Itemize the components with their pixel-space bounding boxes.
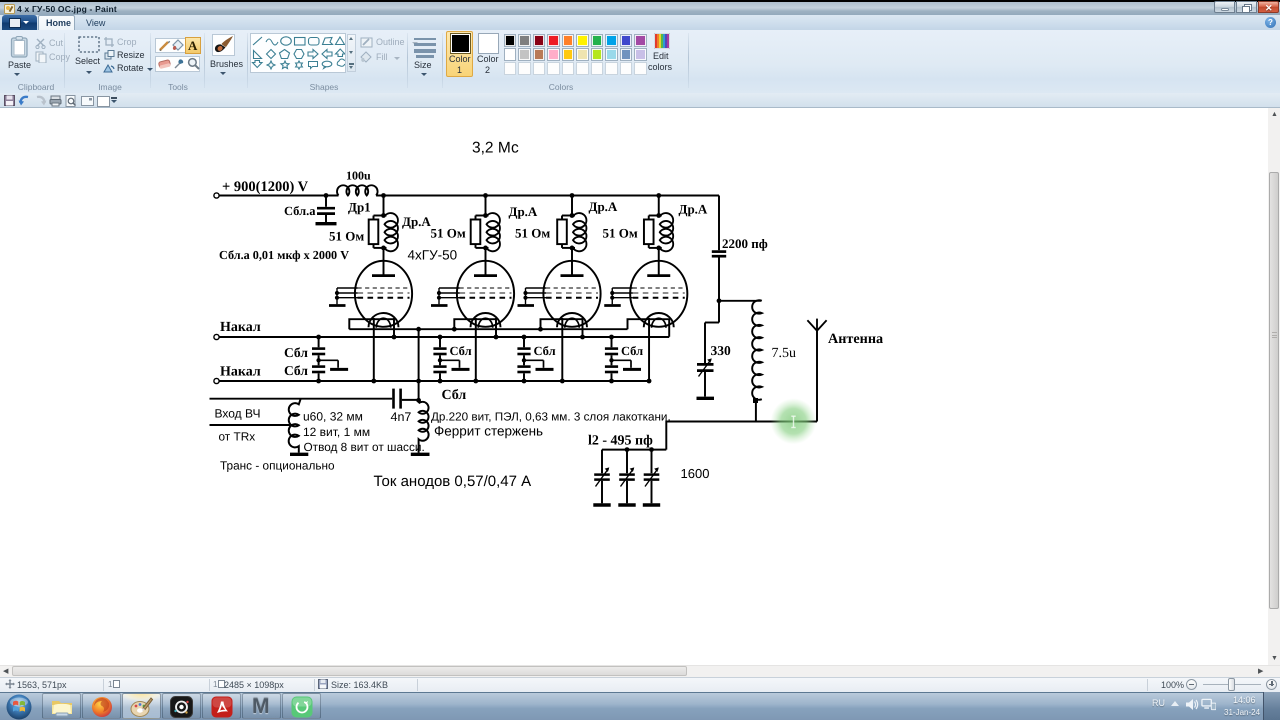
svg-text:Ток анодов 0,57/0,47 А: Ток анодов 0,57/0,47 А xyxy=(374,473,532,490)
svg-text:Др.220 вит, ПЭЛ, 0,63 мм. 3 сл: Др.220 вит, ПЭЛ, 0,63 мм. 3 слоя лакотка… xyxy=(431,411,671,424)
Brushes group xyxy=(212,34,235,56)
svg-text:+ 900(1200) V: + 900(1200) V xyxy=(222,179,309,195)
eraser icon xyxy=(158,58,171,70)
inductor Др.220 ferrite choke xyxy=(419,402,429,453)
fill icon xyxy=(172,39,185,52)
wire cathode bus H2 xyxy=(349,328,627,330)
svg-text:Др.А: Др.А xyxy=(679,202,708,217)
wire tank coil bottom xyxy=(666,399,756,449)
antenna xyxy=(807,319,826,422)
wire supply to choke stage 2 xyxy=(485,196,487,216)
svg-text:Сбл: Сбл xyxy=(621,344,643,358)
wire tube 1 filament right leg xyxy=(393,318,395,337)
svg-text:Др1: Др1 xyxy=(348,200,371,215)
svg-text:7.5u: 7.5u xyxy=(772,346,797,361)
capacitor Сбл cathode pair 1 xyxy=(433,335,469,384)
transformer input coil xyxy=(289,399,301,453)
resistor 51 Ом R2 with choke Др.А L2 xyxy=(471,213,500,251)
svg-text:51 Ом: 51 Ом xyxy=(329,229,364,244)
wire tube 3 filament left leg xyxy=(561,318,563,381)
tube ГУ-50 V4 xyxy=(604,248,687,328)
acrobat icon xyxy=(211,696,233,718)
start orb xyxy=(5,694,33,720)
tray xyxy=(1152,698,1165,708)
node Накал terminal 2 xyxy=(214,378,219,383)
help icon xyxy=(1265,17,1276,28)
variable capacitor l2-495 #1 xyxy=(593,450,610,505)
black recorder icon xyxy=(170,696,193,718)
wire supply rail right segment xyxy=(376,195,719,197)
Image group xyxy=(78,36,100,53)
node supply tap stage 1 xyxy=(381,193,386,198)
svg-text:330: 330 xyxy=(711,343,732,358)
tube ГУ-50 V3 xyxy=(518,248,601,328)
wire supply to choke stage 1 xyxy=(383,196,385,216)
taskbar xyxy=(0,692,1280,720)
resistor 51 Ом R3 with choke Др.А L3 xyxy=(557,213,586,251)
wire supply to choke stage 4 xyxy=(658,196,660,216)
explorer icon xyxy=(50,697,74,717)
svg-text:100u: 100u xyxy=(346,169,371,183)
wire input line 2 tap от TRx xyxy=(210,424,291,426)
svg-text:Др.А: Др.А xyxy=(509,204,538,219)
svg-text:Отвод 8 вит от шасси.: Отвод 8 вит от шасси. xyxy=(304,440,425,454)
ground Др.220 xyxy=(411,453,430,456)
capacitor Сбл cathode pair 2 xyxy=(517,335,553,384)
svg-text:Др.А: Др.А xyxy=(402,214,431,229)
svg-text:51 Ом: 51 Ом xyxy=(515,226,550,241)
tab row xyxy=(0,15,1280,31)
capacitor Сбл.а xyxy=(316,196,337,224)
M icon xyxy=(252,695,272,717)
svg-text:1: 1 xyxy=(213,680,218,689)
capacitor Сбл cathode pair 3 xyxy=(605,335,641,384)
Tools group xyxy=(155,38,200,53)
resistor 51 Ом R4 with choke Др.А L4 xyxy=(644,213,673,251)
node junction Сбл.а tap xyxy=(324,193,329,198)
svg-text:Сбл: Сбл xyxy=(534,344,556,358)
canvas xyxy=(0,108,1268,665)
svg-text:Сбл.а: Сбл.а xyxy=(284,204,316,218)
wire tuning bank bus xyxy=(602,449,666,451)
wire filament box tube 3 xyxy=(541,319,583,329)
svg-text:u60, 32 мм: u60, 32 мм xyxy=(303,410,363,424)
window top black edge xyxy=(0,0,1280,2)
wire output line to antenna xyxy=(756,421,817,423)
svg-text:1: 1 xyxy=(108,680,113,689)
node supply tap stage 2 xyxy=(483,193,488,198)
paint icon xyxy=(130,697,154,718)
svg-text:Сбл: Сбл xyxy=(284,345,308,360)
Clipboard group xyxy=(10,36,29,58)
svg-text:Накал: Накал xyxy=(220,365,261,380)
Size group xyxy=(413,37,437,58)
wire to tank coil xyxy=(719,300,761,302)
ground transformer xyxy=(290,453,308,456)
dropper icon xyxy=(173,57,185,70)
wire filament box tube 4 xyxy=(628,319,670,337)
A icon xyxy=(188,38,197,54)
title bar xyxy=(0,2,1280,15)
node +900V supply terminal xyxy=(214,193,219,198)
node supply tap stage 3 xyxy=(570,193,575,198)
scrollbars xyxy=(1268,108,1280,665)
tube ГУ-50 V1 xyxy=(329,248,412,328)
variable capacitor l2-495 #3 xyxy=(643,450,660,505)
svg-text:1600: 1600 xyxy=(681,466,710,481)
wire filament box tube 2 xyxy=(454,319,496,329)
wire tube 2 filament right leg xyxy=(495,318,497,337)
tube ГУ-50 V2 xyxy=(431,248,514,328)
title bar icon xyxy=(4,4,15,14)
wire tube 4 filament left leg xyxy=(648,318,650,381)
Color 1 (selected) xyxy=(446,31,473,77)
resistor 51 Ом R1 with choke Др.А L1 xyxy=(369,213,398,251)
magnifier icon xyxy=(187,57,200,70)
wire supply to choke stage 3 xyxy=(571,196,573,216)
svg-text:51 Ом: 51 Ом xyxy=(603,226,638,241)
green icon xyxy=(291,696,313,718)
svg-text:Вход ВЧ: Вход ВЧ xyxy=(215,407,261,421)
svg-text:12 вит, 1 мм: 12 вит, 1 мм xyxy=(303,425,370,439)
Outline / Fill xyxy=(360,37,373,48)
wire cathode feed vertical xyxy=(418,329,420,400)
wire RF input line 1 xyxy=(210,398,393,400)
palette xyxy=(504,34,517,47)
svg-text:Сбл: Сбл xyxy=(450,344,472,358)
window control buttons xyxy=(1214,1,1235,13)
svg-text:Др.А: Др.А xyxy=(589,199,618,214)
svg-text:Антенна: Антенна xyxy=(828,331,883,347)
green highlight marker xyxy=(0,0,1,1)
Edit colors xyxy=(654,33,670,49)
inductor Др1 100u xyxy=(337,185,378,195)
svg-text:2200 пф: 2200 пф xyxy=(722,236,768,251)
pencil icon xyxy=(158,39,171,52)
svg-text:4хГУ-50: 4хГУ-50 xyxy=(408,248,458,263)
svg-text:Сбл: Сбл xyxy=(284,363,308,378)
inductor tank coil 7.5u xyxy=(752,300,762,399)
wire tube 1 filament left leg xyxy=(373,318,375,381)
svg-text:4n7: 4n7 xyxy=(391,410,412,424)
firefox icon xyxy=(91,696,113,718)
Color 2 xyxy=(478,33,499,54)
variable capacitor l2-495 #2 xyxy=(618,450,635,505)
ribbon xyxy=(0,30,1280,94)
svg-text:Феррит стержень: Феррит стержень xyxy=(434,424,543,439)
svg-text:от TRx: от TRx xyxy=(219,430,256,444)
capacitor Сбл pair filament input xyxy=(312,335,348,384)
node Накал terminal 1 xyxy=(214,334,219,339)
wire tube 2 filament left leg xyxy=(475,318,477,381)
taskbar buttons xyxy=(42,693,81,719)
wire supply rail left segment xyxy=(219,195,339,197)
svg-text:Транс - опционально: Транс - опционально xyxy=(220,459,335,473)
svg-text:Накал: Накал xyxy=(220,320,261,335)
QAT row xyxy=(0,93,1280,108)
wire tube 3 filament right leg xyxy=(582,318,584,337)
svg-text:51 Ом: 51 Ом xyxy=(431,226,466,241)
wire filament line H3 xyxy=(219,336,669,338)
svg-text:Сбл.а 0,01 мкф х 2000 V: Сбл.а 0,01 мкф х 2000 V xyxy=(219,248,349,262)
capacitor 2200 пф xyxy=(712,196,726,323)
node tank junction xyxy=(717,298,722,303)
wire filament box tube 1 xyxy=(349,319,394,329)
node supply tap stage 4 xyxy=(656,193,661,198)
capacitor 4n7 xyxy=(394,389,419,409)
svg-text:Сбл: Сбл xyxy=(442,388,467,403)
svg-text:3,2 Мс: 3,2 Мс xyxy=(472,140,519,157)
wire filament line H4 xyxy=(219,380,648,382)
variable capacitor 330 xyxy=(697,323,720,399)
status bar xyxy=(0,677,1280,692)
svg-text:l2 - 495 пф: l2 - 495 пф xyxy=(588,434,653,449)
Shapes group xyxy=(250,33,346,73)
